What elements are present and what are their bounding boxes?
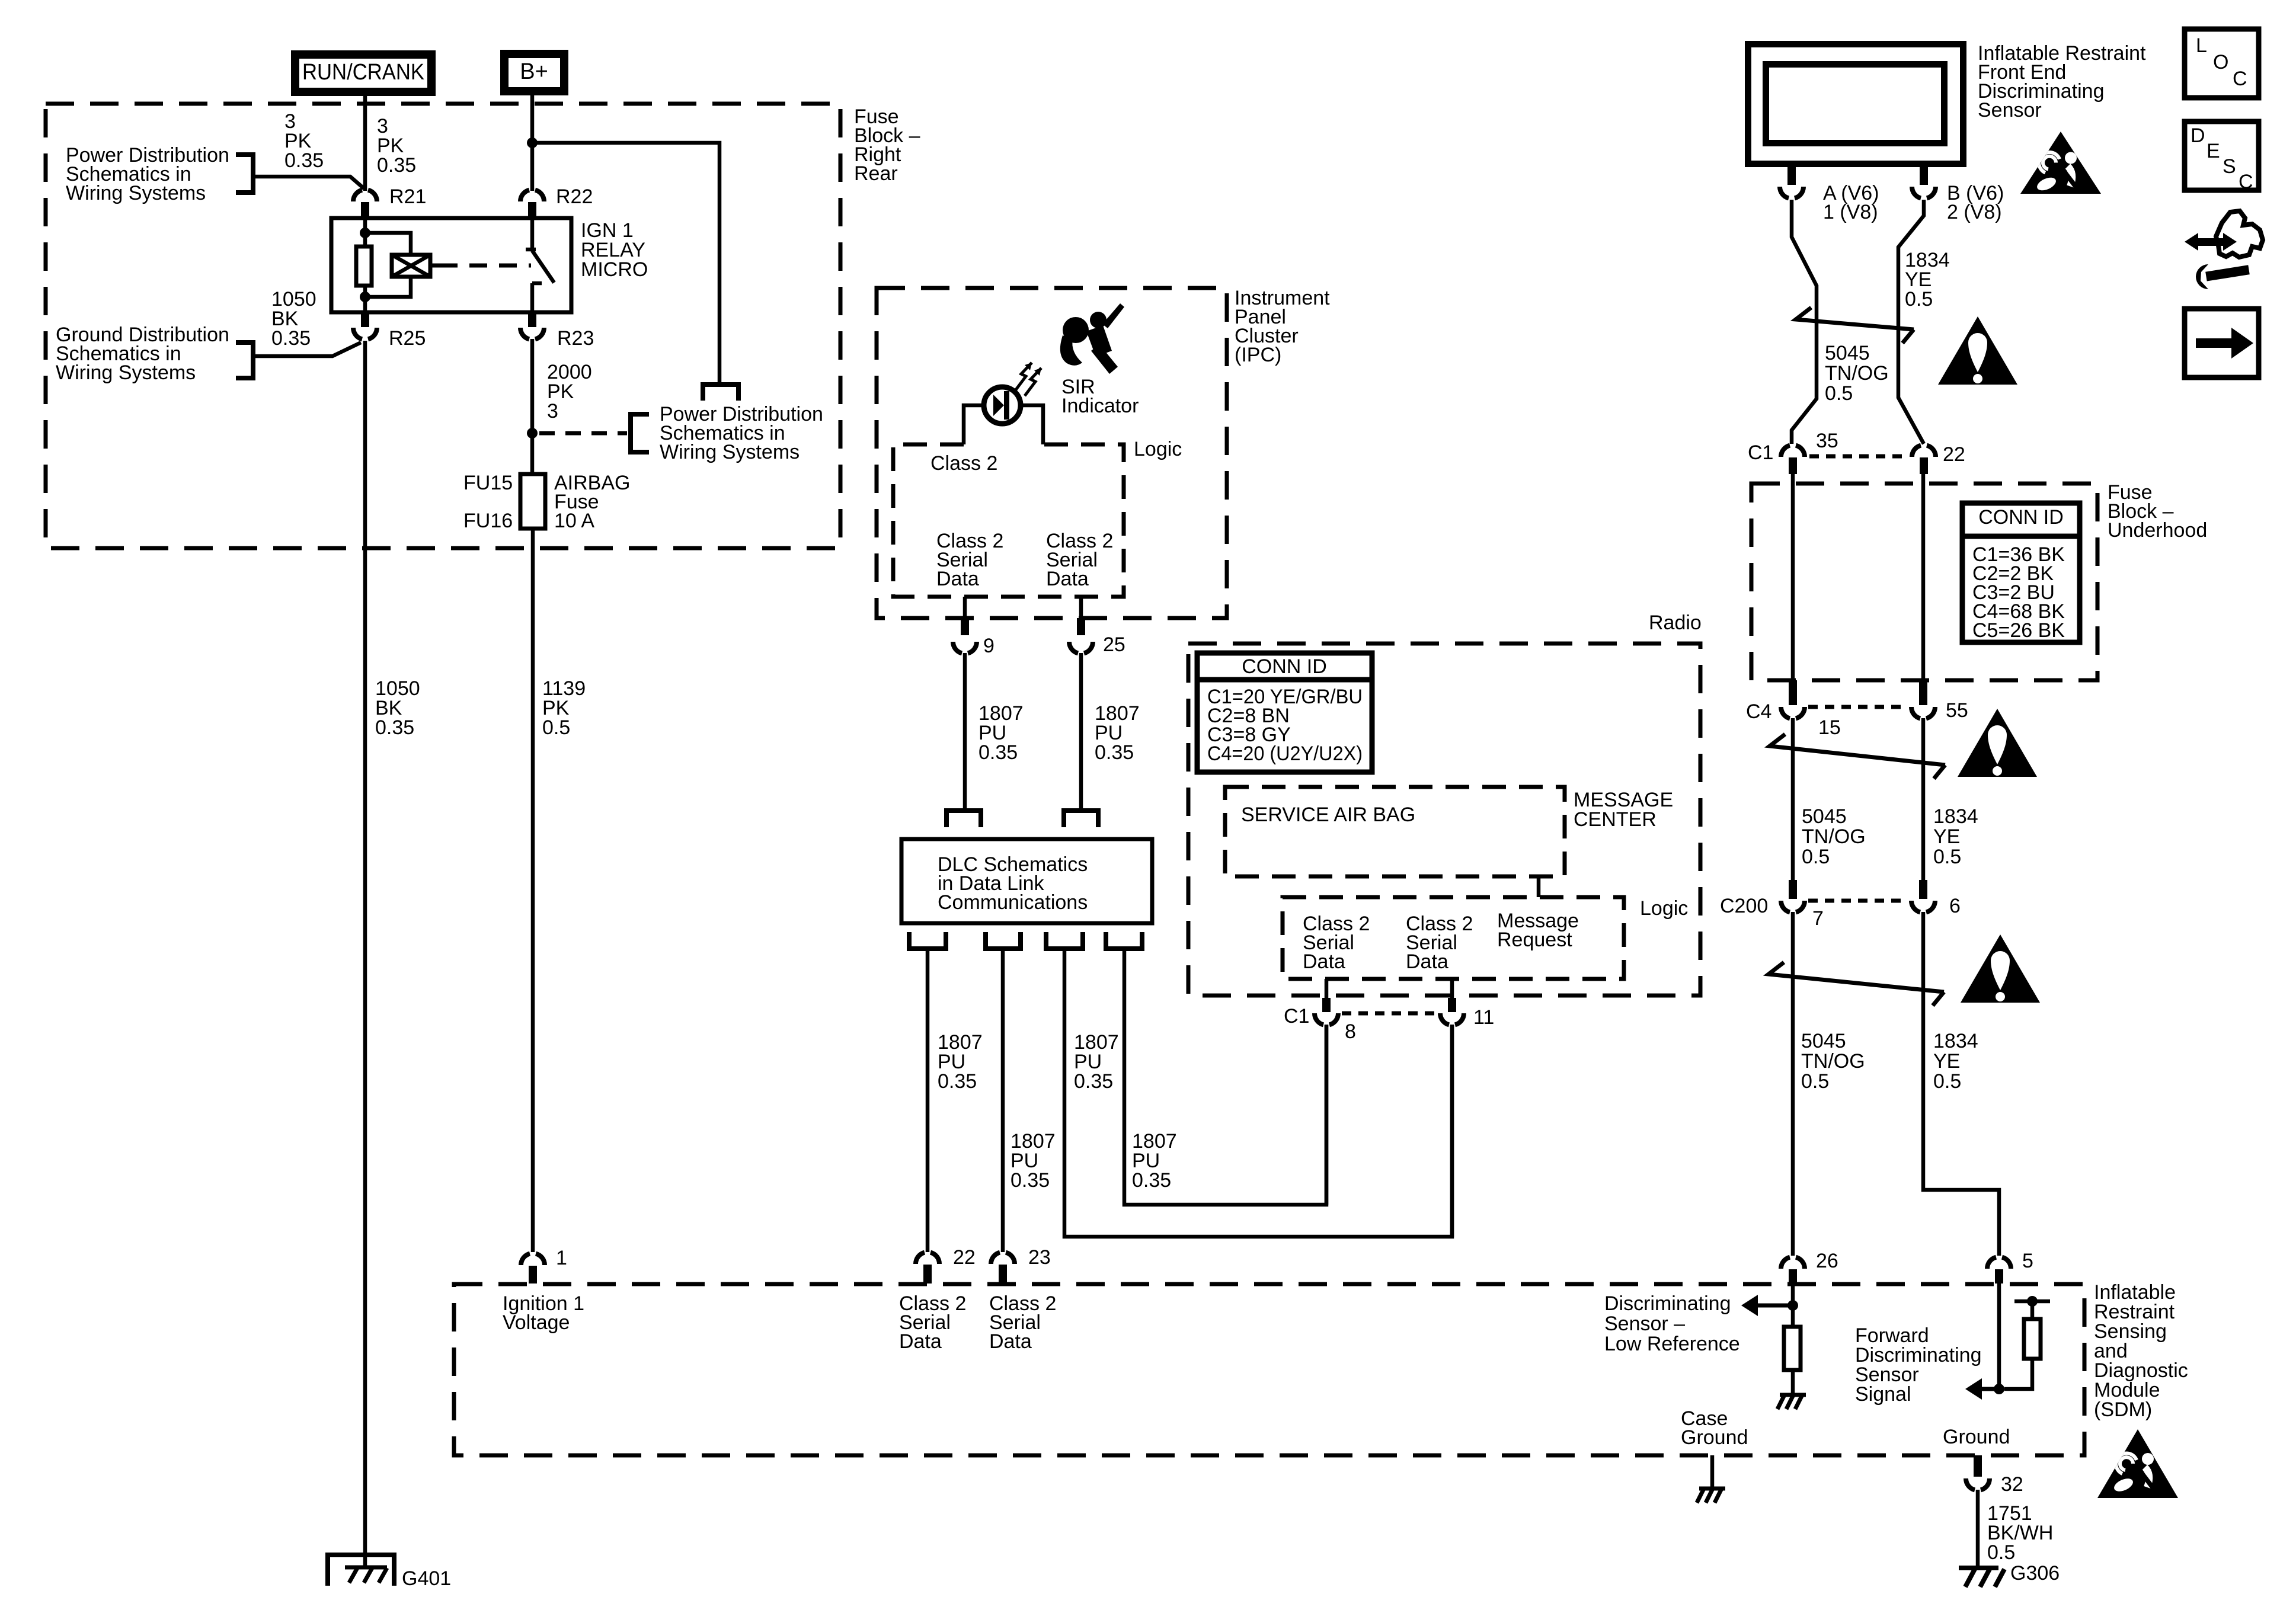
svg-text:G306: G306	[2010, 1562, 2060, 1585]
connector 11	[1448, 998, 1456, 1012]
connector R21	[353, 190, 377, 201]
bracket ground distribution	[236, 343, 253, 378]
connector C1 pin 22	[1912, 446, 1936, 457]
icon vehicle data	[2185, 233, 2198, 251]
svg-text:FU15: FU15	[463, 472, 513, 494]
wire 25 to DLC	[1079, 653, 1083, 811]
svg-text:R21: R21	[389, 185, 426, 208]
wire message center to logic	[1537, 876, 1541, 897]
wire DLC to radio pin 11	[1064, 949, 1452, 1237]
svg-text:O: O	[2213, 51, 2228, 73]
svg-text:5: 5	[2022, 1250, 2033, 1272]
wire crossing symbol (C200 row)	[1769, 962, 1944, 1006]
DLC output stub 4	[1106, 932, 1142, 949]
wire resistor top link	[2030, 1301, 2035, 1319]
wire R23 to fuse	[530, 339, 535, 474]
connector R25	[353, 328, 377, 339]
DLC output stub 3	[1046, 932, 1083, 949]
radio CONN ID table	[1197, 653, 1372, 772]
node B+ branch junction	[527, 137, 538, 148]
wire relay coil left leg	[363, 218, 367, 247]
wire RUN/CRANK to R21	[363, 96, 367, 191]
connector 5	[1987, 1257, 2011, 1269]
connector 9	[961, 618, 969, 635]
radio dashed box	[1188, 644, 1700, 996]
connector 55	[1919, 680, 1927, 705]
stub rail pin 5 resistor	[2014, 1299, 2050, 1304]
svg-text:22: 22	[953, 1246, 976, 1269]
fuse block underhood dashed box	[1751, 484, 2097, 680]
connector R22	[520, 190, 544, 201]
svg-text:9: 9	[983, 635, 994, 657]
wire 6 to SDM 5	[1923, 912, 1999, 1256]
wire IPC logic to pin 25	[1079, 597, 1083, 618]
connector B	[1920, 167, 1928, 185]
connector 23	[991, 1253, 1015, 1264]
wire IPC logic to pin 9	[963, 597, 967, 618]
wire 32 to G306	[1976, 1490, 1980, 1567]
svg-text:7: 7	[1812, 907, 1824, 930]
svg-text:A (V6)1 (V8): A (V6)1 (V8)	[1823, 182, 1879, 223]
wire sensor A to C1-35	[1792, 200, 1817, 444]
LED light arrows	[1015, 363, 1032, 391]
svg-text:23: 23	[1028, 1246, 1051, 1269]
resistor low reference	[1784, 1327, 1801, 1370]
wire SDM pin 5 internal	[1997, 1283, 2001, 1389]
svg-text:1: 1	[556, 1247, 567, 1269]
connector R23	[520, 328, 544, 339]
resistor forward signal	[2024, 1319, 2041, 1359]
wire coil bottom link	[365, 277, 411, 297]
wire SDM pin 26 internal	[1791, 1283, 1795, 1327]
wire 22 to 55	[1921, 474, 1926, 687]
dashed connector line 15-55	[1808, 705, 1908, 709]
wire power distribution to R21	[253, 177, 364, 188]
svg-text:8: 8	[1345, 1020, 1356, 1043]
connector 1	[521, 1254, 545, 1265]
service air bag dashed box	[1225, 787, 1565, 876]
stub bracket to power distribution text	[703, 385, 738, 401]
icon LOC box	[2185, 29, 2259, 98]
connector 26	[1781, 1257, 1805, 1269]
wire B+ branch to fuse block stub	[532, 143, 720, 384]
wire C200-7 to SDM 26	[1791, 912, 1795, 1256]
connector 25	[1077, 618, 1085, 635]
wire B+ to R22	[530, 95, 535, 191]
dashed connector line 7-6	[1808, 899, 1908, 903]
wire 35 to C4-15	[1791, 474, 1795, 687]
bracket power distribution	[236, 155, 253, 193]
svg-text:L: L	[2196, 34, 2207, 57]
connector A	[1787, 167, 1796, 185]
SIR airbag icon	[1060, 303, 1124, 374]
LED circle with diode	[984, 387, 1021, 424]
svg-text:Ground: Ground	[1943, 1426, 2010, 1448]
wire 9 to DLC	[963, 653, 967, 811]
power feed box B+	[504, 54, 564, 91]
DLC output stub 1	[909, 932, 946, 949]
svg-text:FU16: FU16	[463, 510, 513, 532]
underhood CONN ID table	[1962, 503, 2080, 642]
wire resistor bottom to R25 leg	[363, 286, 367, 312]
dashed connector line 8-11	[1342, 1012, 1437, 1016]
wire crossing symbol (C4 row)	[1770, 734, 1945, 779]
svg-text:R25: R25	[389, 327, 426, 350]
IPC logic dashed box	[893, 444, 1124, 597]
arrow low reference	[1758, 1304, 1793, 1308]
node relay coil bottom junction	[360, 292, 370, 302]
svg-text:C1: C1	[1748, 441, 1773, 464]
svg-text:15: 15	[1818, 716, 1841, 739]
svg-text:Class 2: Class 2	[930, 452, 997, 475]
svg-text:RUN/CRANK: RUN/CRANK	[302, 60, 424, 85]
svg-text:35: 35	[1816, 430, 1838, 452]
chassis ground (case ground)	[1699, 1487, 1725, 1491]
relay coil box with X	[392, 255, 430, 277]
svg-text:C1=36 BKC2=2 BKC3=2 BUC4=68 BK: C1=36 BKC2=2 BKC3=2 BUC4=68 BKC5=26 BK	[1972, 543, 2065, 642]
svg-text:11: 11	[1473, 1006, 1494, 1029]
ground G401	[328, 1555, 394, 1586]
connector C200 pin 7	[1789, 880, 1797, 899]
svg-text:CONN ID: CONN ID	[1242, 655, 1327, 678]
DLC output stub 2	[986, 932, 1021, 949]
fuse block right rear dashed box	[46, 104, 840, 548]
resistor relay coil suppression	[356, 247, 372, 286]
warning triangle (C4 row)	[1958, 709, 2037, 777]
node relay coil top junction	[360, 228, 370, 238]
svg-text:C1: C1	[1284, 1005, 1309, 1028]
wire DLC to radio pin 8	[1124, 949, 1326, 1205]
svg-text:D: D	[2191, 124, 2205, 147]
svg-text:Logic: Logic	[1134, 438, 1182, 460]
wire ground distribution to R25	[253, 343, 361, 356]
svg-text:MessageRequest: MessageRequest	[1497, 910, 1579, 951]
svg-text:SERVICE AIR BAG: SERVICE AIR BAG	[1241, 804, 1415, 826]
wire radio logic to pin 11	[1450, 979, 1454, 999]
svg-text:6: 6	[1949, 895, 1961, 917]
node junction to power distribution stub	[527, 428, 538, 438]
svg-text:B+: B+	[520, 59, 548, 84]
connector 22	[916, 1253, 939, 1264]
svg-text:C: C	[2239, 171, 2253, 193]
connector C1 pin 35	[1781, 446, 1805, 457]
wire below connector 11	[1450, 1025, 1454, 1237]
svg-text:22: 22	[1943, 443, 1965, 466]
wire sensor B to C1-22	[1898, 200, 1924, 444]
LED indicator bridge	[964, 405, 981, 444]
connector 8	[1322, 998, 1331, 1012]
wire resistor to junction	[2004, 1359, 2032, 1389]
front end discriminating sensor box	[1748, 44, 1964, 164]
ground G306	[1959, 1566, 1998, 1570]
DLC input stub right	[1064, 811, 1098, 827]
bracket power distribution (fuse)	[631, 414, 649, 452]
svg-text:32: 32	[2001, 1473, 2023, 1496]
instrument panel cluster dashed box	[877, 288, 1227, 618]
svg-text:E: E	[2207, 140, 2220, 162]
node resistor top	[2027, 1296, 2038, 1307]
SDM dashed box	[454, 1284, 2084, 1455]
svg-text:C: C	[2233, 68, 2247, 90]
node junction pin 26	[1787, 1300, 1798, 1311]
case ground stub	[1710, 1455, 1715, 1487]
dashed mechanical link	[430, 264, 440, 268]
svg-text:55: 55	[1946, 699, 1968, 722]
svg-text:S: S	[2223, 155, 2236, 178]
icon forward arrow box	[2185, 309, 2259, 377]
wire R25 to G401	[363, 341, 367, 1567]
svg-text:Radio: Radio	[1649, 612, 1702, 634]
connector C4 pin 15	[1789, 680, 1797, 705]
wire coil top link	[365, 233, 411, 255]
connector 32	[1974, 1455, 1982, 1477]
wire below connector 8	[1325, 1025, 1329, 1205]
connector C200 pin 6	[1919, 880, 1927, 899]
chassis ground (low reference)	[1780, 1393, 1806, 1397]
wire 55 to 6	[1921, 718, 1926, 882]
svg-text:C200: C200	[1720, 895, 1768, 917]
node junction pin 5	[1994, 1384, 2004, 1394]
svg-text:R22: R22	[556, 185, 593, 208]
wire radio logic to pin 8	[1325, 979, 1329, 999]
wire resistor to case ground	[1791, 1370, 1795, 1394]
svg-text:B (V6)2 (V8): B (V6)2 (V8)	[1947, 182, 2004, 223]
svg-text:G401: G401	[402, 1567, 451, 1590]
wire DLC to SDM pin 23	[1001, 949, 1005, 1252]
radio logic dashed box	[1283, 897, 1624, 979]
relay switch	[530, 218, 535, 251]
wire C4-15 to C200-7	[1791, 718, 1795, 882]
svg-text:25: 25	[1103, 633, 1125, 656]
DLC input stub left	[946, 811, 981, 827]
warning triangle (C200 row)	[1961, 934, 2040, 1003]
relay box IGN 1 RELAY MICRO	[331, 218, 571, 312]
power feed box RUN/CRANK	[295, 55, 431, 92]
svg-text:C4: C4	[1746, 700, 1771, 723]
svg-text:R23: R23	[557, 327, 594, 350]
svg-text:CONN ID: CONN ID	[1978, 506, 2064, 529]
arrow forward discriminating sensor signal	[1982, 1387, 1999, 1391]
dashed connector line 35-22	[1809, 454, 1908, 459]
wire fuse to SDM pin 1	[531, 529, 535, 1252]
wire crossing symbol (sensor)	[1796, 308, 1914, 343]
warning triangle (sensor)	[1938, 316, 2017, 385]
DLC schematics box	[901, 839, 1152, 923]
svg-text:Logic: Logic	[1640, 897, 1688, 920]
icon DESC box	[2185, 121, 2259, 190]
wire DLC to SDM pin 22	[926, 949, 930, 1252]
svg-text:26: 26	[1816, 1250, 1838, 1272]
fuse FU15/FU16 AIRBAG	[520, 474, 545, 529]
dashed stub to power distribution	[539, 431, 627, 436]
